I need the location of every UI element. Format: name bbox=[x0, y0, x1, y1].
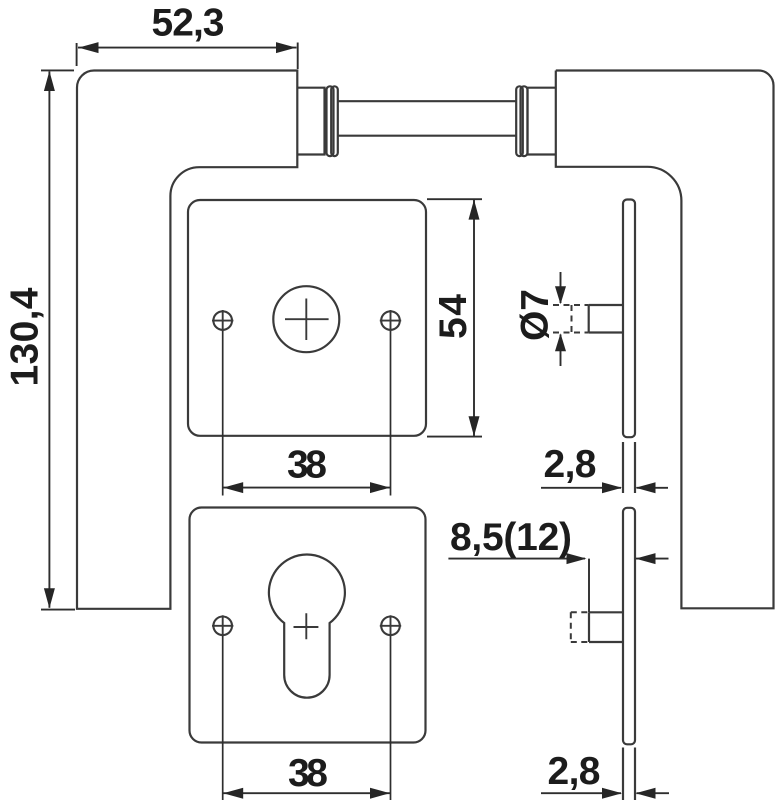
middle rosette square bbox=[188, 200, 426, 436]
left handle lever outline bbox=[77, 71, 297, 609]
dim 2,8 upper lines bbox=[541, 487, 668, 489]
svg-text:38: 38 bbox=[288, 752, 328, 795]
dim 38 upper leader lines bbox=[223, 331, 391, 496]
arrow 38 upper right bbox=[370, 482, 390, 493]
svg-text:8,5(12): 8,5(12) bbox=[450, 516, 572, 559]
dim 38 upper line bbox=[223, 487, 391, 489]
svg-text:130,4: 130,4 bbox=[4, 287, 47, 386]
dim 38 lower line bbox=[223, 792, 391, 794]
left collar ring 2 bbox=[331, 86, 338, 156]
lower rosette square bbox=[190, 508, 426, 743]
arrow Ø7 down bbox=[555, 286, 566, 304]
lower rosette left screw bbox=[213, 617, 232, 636]
arrow 2,8 lower pointing left bbox=[636, 788, 656, 799]
side plate segment C (lower rosette side view) bbox=[623, 508, 635, 745]
spindle bottom line bbox=[337, 135, 517, 137]
dim 52,3 extension lines bbox=[77, 43, 298, 70]
arrow 2,8 upper pointing right bbox=[602, 482, 622, 493]
arrow 130,4 down bbox=[44, 588, 55, 608]
arrow 52,3 right bbox=[276, 42, 296, 53]
arrow 54 up bbox=[469, 200, 480, 220]
left handle neck bbox=[297, 88, 324, 155]
upper fixing pin hidden dashed part bbox=[553, 305, 589, 333]
arrow 2,8 lower pointing right bbox=[602, 788, 622, 799]
left collar ring 1 bbox=[327, 86, 334, 156]
arrow 38 lower left bbox=[223, 788, 243, 799]
keyhole center cross bbox=[294, 613, 319, 639]
dim 8,5(12) leader line bbox=[448, 559, 668, 612]
svg-text:2,8: 2,8 bbox=[548, 750, 601, 793]
lower rosette euro cylinder keyhole bbox=[269, 555, 345, 698]
right handle lever outline bbox=[556, 71, 774, 609]
dim 130,4 line bbox=[48, 72, 50, 608]
arrow 8,5(12) right bbox=[567, 553, 587, 564]
arrow 52,3 left bbox=[79, 42, 99, 53]
dim 54 line bbox=[473, 199, 475, 436]
svg-text:2,8: 2,8 bbox=[544, 443, 597, 486]
lower rosette right screw bbox=[381, 617, 400, 636]
arrow 130,4 up bbox=[44, 71, 55, 91]
arrow 54 down bbox=[469, 416, 480, 436]
arrow 8,5(12) pointing left at plate bbox=[636, 553, 656, 564]
side plate segment B (break lines) bbox=[623, 442, 635, 493]
arrow 38 lower right bbox=[370, 788, 390, 799]
dim 2,8 lower lines bbox=[541, 792, 669, 794]
dim 38 lower leader lines bbox=[223, 636, 391, 800]
right handle neck bbox=[528, 88, 556, 155]
spindle top line bbox=[337, 100, 517, 102]
arrow Ø7 up bbox=[555, 333, 566, 351]
right collar ring 1 bbox=[516, 86, 523, 156]
svg-text:52,3: 52,3 bbox=[152, 2, 225, 45]
middle rosette left screw bbox=[213, 311, 232, 330]
dim 130,4 ticks bbox=[41, 70, 75, 609]
middle rosette center cross bbox=[285, 299, 329, 341]
svg-text:38: 38 bbox=[287, 444, 327, 487]
side plate segment D (break lines to bottom) bbox=[623, 748, 635, 800]
lower fixing pin solid part bbox=[589, 612, 624, 642]
right collar ring 2 bbox=[521, 86, 528, 156]
lower fixing pin hidden dashed part bbox=[571, 612, 589, 642]
dim 54 extension lines bbox=[427, 199, 482, 436]
svg-text:Ø7: Ø7 bbox=[514, 289, 557, 341]
dim 52,3 line bbox=[78, 47, 297, 49]
middle rosette right screw bbox=[381, 311, 400, 330]
dim Ø7 arrow lines bbox=[560, 272, 562, 366]
upper fixing pin solid part bbox=[589, 305, 623, 333]
svg-text:54: 54 bbox=[432, 294, 475, 339]
arrow 2,8 upper pointing left bbox=[636, 482, 656, 493]
arrow 38 upper left bbox=[223, 482, 243, 493]
middle rosette spindle hole circle bbox=[273, 286, 339, 352]
side plate segment A (upper rosette side view) bbox=[623, 200, 635, 438]
